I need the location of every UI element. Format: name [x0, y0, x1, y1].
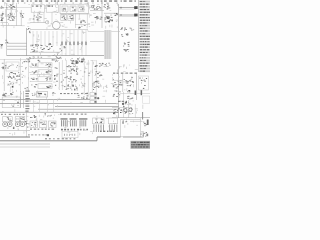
wire horiz y117 right — [112, 117, 150, 119]
wire vertical x28 mid — [28, 58, 30, 92]
junction dot left mid — [12, 86, 14, 88]
label right of J5 — [52, 92, 55, 95]
net labels left of contact stack — [78, 95, 89, 99]
border rule 3 — [0, 146, 50, 148]
wire horiz y84 right — [112, 83, 123, 85]
contact row 3 text — [46, 78, 52, 81]
transformer T1 winding marks — [4, 123, 10, 124]
wire stubs bus band — [2, 92, 119, 112]
relay K8 label — [7, 64, 18, 68]
wire stubs upper left — [2, 4, 58, 30]
wire horiz y80 right — [112, 79, 123, 81]
wire horiz y58 — [26, 57, 62, 59]
IC U5 cluster — [95, 16, 103, 20]
label left of J5 — [32, 93, 36, 96]
transformer T2 winding marks — [17, 123, 23, 124]
relay K3 box — [61, 15, 67, 21]
IC U6 dark cluster — [104, 15, 113, 23]
stack of contacts mid-right — [90, 93, 96, 104]
wire vert x23 bus — [23, 91, 25, 108]
net marks center strip — [22, 62, 29, 89]
capacitor bank C22 hatch — [79, 118, 87, 126]
wire step vertical — [96, 137, 98, 141]
IC U16 text — [95, 119, 103, 124]
switch S1 column — [54, 67, 58, 86]
capacitor bank C21 hatch — [70, 118, 77, 126]
crystal Y1 group — [62, 84, 78, 90]
IC U17 pin columns — [109, 125, 117, 133]
wire vert x26 bottom — [26, 113, 28, 137]
wire horiz y81 link — [30, 81, 38, 83]
wire horiz y29 under motor — [30, 29, 88, 31]
transistor Q2 group — [104, 4, 111, 10]
wire horiz y59 left — [0, 59, 30, 61]
relay K4 box — [68, 15, 74, 21]
relay K2 contact cluster — [33, 14, 42, 21]
relay K1b box — [12, 10, 17, 17]
connector J2 pins — [0, 13, 4, 21]
wire vert x87 — [86, 13, 88, 28]
wire horiz y130 left — [0, 130, 30, 132]
wire horiz y67 link — [30, 67, 38, 69]
wire vert x88 mid — [87, 60, 89, 95]
label net name A — [121, 33, 128, 37]
wire stubs center right — [62, 58, 109, 92]
resistor R21 group — [92, 80, 99, 84]
net labels row y73 — [113, 73, 137, 74]
IC U4 cell 2 text — [72, 7, 76, 11]
transformer T1 — [3, 117, 13, 127]
wire vertical x57 top — [57, 1, 59, 6]
fuse box F1 — [121, 120, 141, 137]
wire vertical x4 mid — [3, 59, 5, 91]
wire horiz y43 — [7, 42, 27, 44]
wire horiz y41 right — [90, 41, 104, 43]
IC U4 outline box — [60, 4, 89, 13]
wire horiz y22 mid — [30, 22, 46, 24]
wire to terminal list lower b — [119, 16, 136, 18]
connector terminal label column — [139, 1, 151, 73]
capacitor C2 cluster — [20, 13, 24, 17]
contact row box 4 — [38, 84, 52, 89]
title block text rows — [131, 142, 149, 148]
node junction dot upper wire — [120, 7, 122, 9]
op-amp U12 group — [95, 71, 102, 77]
wire vert x44 — [43, 12, 45, 22]
net marks top left extra — [6, 4, 13, 9]
IC U15 pins — [139, 78, 147, 89]
shield box ticks — [64, 134, 75, 136]
wire horiz y10 q1 — [90, 10, 104, 12]
wire vertical x59 mid — [58, 62, 60, 90]
wire vertical x6 left — [5, 3, 7, 56]
net labels y101 — [118, 101, 127, 102]
relay K5 box — [30, 121, 38, 127]
IC U15 pin stubs — [135, 90, 143, 95]
wire vert x62 mid — [61, 60, 63, 90]
diode D21 cluster — [120, 27, 134, 31]
label Tia right — [127, 96, 133, 100]
connector block J5 — [37, 92, 48, 98]
relay K7 text — [50, 122, 56, 127]
ribbon cable lines — [105, 30, 109, 59]
relay K6 box — [39, 121, 47, 127]
wire vertical trunk x102 — [101, 1, 103, 29]
label under knot — [29, 57, 42, 62]
IC U4 cell 2 — [70, 6, 76, 11]
connector J3 — [1, 63, 6, 69]
contact row 1 label — [32, 64, 37, 67]
ribbon cable bus band — [104, 30, 111, 59]
IC U2 label text — [32, 6, 42, 7]
terminal bar right edge — [147, 120, 149, 126]
terminal labels x26 — [25, 121, 30, 127]
wire vertical trunk left of terminal list — [137, 0, 139, 72]
net marks center strip b — [61, 70, 66, 83]
wire vert x136 mid — [135, 74, 137, 100]
IC U9 cluster — [69, 68, 79, 74]
wire vert x34 — [33, 12, 35, 22]
junction dot bottom left — [13, 127, 15, 129]
arrow mark — [47, 134, 49, 136]
connector block J5 pins — [38, 93, 47, 97]
wire main vertical trunk x118 — [118, 4, 120, 118]
contact row 2 label — [32, 70, 37, 73]
IC U4 cell 1 — [62, 6, 68, 11]
wire horiz y13 q2 — [104, 12, 119, 14]
inductor L1 cluster — [52, 53, 62, 62]
IC U13 cluster — [113, 79, 123, 88]
net label small — [10, 92, 13, 96]
contact row box 3 — [38, 77, 52, 82]
net label top right of J3 — [24, 59, 30, 62]
connector marks right of box — [140, 132, 147, 137]
node junction dot lower wire — [120, 14, 122, 16]
wire horiz y52 — [30, 51, 60, 53]
wire horiz y55 main — [7, 55, 104, 57]
transformer T1 labels — [7, 117, 12, 121]
shield box bottom mid — [62, 131, 78, 137]
wire vert x123 lower — [123, 92, 125, 118]
diode D8 marks — [59, 45, 65, 51]
wire vertical x21 — [20, 10, 22, 26]
bus net labels — [60, 93, 88, 94]
capacitor C1 group — [10, 5, 15, 9]
relay K5 text — [31, 122, 36, 127]
lamp symbol small — [46, 21, 49, 24]
wire vert x84 mid — [83, 60, 85, 95]
border rule 2 — [0, 143, 50, 145]
bus wire y103 — [0, 103, 119, 105]
relay K6 text — [40, 122, 46, 125]
contact row 4 text — [46, 86, 51, 89]
wire vert x20 bus — [20, 91, 22, 108]
ground symbol cluster left — [0, 44, 3, 48]
wire vert x123 — [122, 74, 124, 92]
relay K3 contacts — [62, 16, 67, 20]
bus wire y99 — [0, 99, 90, 101]
wire bus under U4 — [60, 13, 90, 15]
wire vertical x16 — [16, 3, 18, 26]
wire comb left group — [33, 31, 57, 46]
contact row 3 label — [31, 78, 38, 80]
top subtitle text row — [4, 2, 118, 5]
border rule step right — [97, 136, 121, 138]
junction dot x98 y98 — [97, 97, 99, 99]
relay K8 box — [6, 62, 19, 71]
transistor Q1 symbol — [91, 5, 94, 8]
op-amp U11 group — [95, 63, 104, 67]
wire to terminal list upper b — [119, 8, 136, 10]
wire vert x66 mid — [65, 60, 67, 90]
border rule left dark — [0, 136, 30, 138]
wire vert x135 lower — [134, 104, 136, 118]
net labels under bus right — [45, 113, 53, 116]
IC U8 dark cluster — [70, 58, 84, 65]
bus wire y106 — [55, 106, 119, 108]
wire vertical x20 mid — [20, 58, 22, 92]
diode D5 marks — [127, 90, 130, 92]
wire vert x75 — [74, 13, 76, 28]
junction knot wires — [30, 44, 45, 53]
IC U17 box bottom — [108, 118, 117, 124]
wire vert x128 right — [128, 100, 130, 118]
wire horiz y74 link — [30, 74, 38, 76]
wire to terminal list lower — [119, 14, 136, 16]
border rule main — [0, 140, 97, 142]
wire vert x92 — [91, 60, 93, 92]
bottom text left of rule — [28, 134, 47, 135]
contact row 1 text — [46, 64, 52, 67]
capacitor C7 group — [80, 20, 86, 24]
wire top-left horiz y25 — [1, 25, 23, 27]
wire horiz y107 right — [112, 107, 129, 109]
capacitor bank box — [143, 96, 150, 103]
IC U4 cell 3 — [78, 6, 84, 11]
IC U2 box — [31, 5, 44, 12]
IC U4 cell 3 text — [79, 7, 83, 11]
IC U4 cell 1 text — [63, 8, 67, 11]
IC U3 box — [46, 5, 58, 12]
wire stubs bottom row — [8, 114, 118, 135]
wire stubs right mid — [111, 64, 138, 97]
IC U8b cluster — [67, 66, 78, 68]
transistor Q1 group — [93, 5, 101, 10]
transistor Q6 Q7 pair — [113, 108, 122, 114]
ground net cluster left — [2, 93, 7, 97]
wire horiz y7 top-left — [0, 7, 31, 9]
wire label column mid-left — [25, 91, 29, 112]
net label right of column — [105, 63, 111, 67]
contact row box 2 — [38, 70, 52, 75]
wire vert x79 — [78, 13, 80, 19]
resistor network RN2 label — [123, 49, 129, 52]
fuse F2 marks — [1, 6, 4, 9]
wire horiz y31 right — [88, 31, 120, 33]
resistor bank R11-R17 — [61, 30, 86, 56]
IC U15 box right — [138, 76, 148, 90]
wire horiz y46 — [7, 45, 27, 47]
net marks center strip c — [81, 71, 91, 86]
IC U16 box bottom — [93, 118, 104, 124]
bottom text above rule — [45, 138, 75, 139]
bus taps — [34, 100, 54, 113]
diode D3 pair — [114, 13, 118, 16]
capacitor bank C20 hatch — [61, 118, 68, 126]
net labels under bus left — [30, 115, 36, 118]
IC U7 dark cluster — [8, 72, 21, 85]
diode D7 marks — [46, 43, 53, 50]
wire horiz y49 — [7, 48, 27, 50]
labels above transformers — [1, 114, 24, 115]
wire vert x96 — [95, 60, 97, 92]
wire vert x52 — [51, 12, 53, 22]
wire vertical x26 — [26, 28, 28, 56]
label under Q9 — [125, 101, 131, 104]
wire stubs mid left — [30, 31, 89, 58]
transistor Q8 — [124, 109, 127, 112]
motor M1 symbol — [52, 21, 60, 29]
resistor R101 — [134, 6, 137, 9]
bus wire y109 — [38, 108, 119, 110]
resistor row dots — [61, 129, 88, 131]
transistor Q5 group — [113, 90, 121, 97]
title block background — [131, 141, 151, 149]
bottom label pm row — [100, 131, 114, 132]
transformer T2 — [15, 117, 25, 127]
top title text row — [2, 0, 136, 1]
label under U4 right — [78, 25, 85, 28]
wire horiz y93 right — [120, 93, 150, 95]
transistor Q8 Q9 labels — [123, 106, 133, 114]
net name block x27 y28 — [27, 28, 31, 32]
wire stubs center — [2, 59, 59, 92]
labels above cap bank — [60, 114, 87, 115]
relay K1 box — [6, 10, 12, 17]
wire top-left horiz y22 — [1, 21, 9, 23]
wire horiz y24 right of U4 — [75, 24, 90, 26]
capacitor C12 — [5, 40, 8, 44]
transformer T2 labels — [17, 117, 24, 121]
terminal block pins — [3, 99, 19, 106]
tick at title block — [143, 133, 145, 137]
resistor R102 — [134, 14, 137, 17]
border rule right segment — [123, 136, 144, 138]
wire to terminal list upper — [119, 7, 136, 9]
contact row box 1 — [38, 63, 52, 68]
IC U10 cluster — [66, 76, 77, 82]
IC U16 pin columns — [93, 125, 104, 133]
wire stubs bottom right — [117, 101, 144, 128]
bus wire y112 — [0, 111, 119, 113]
op-amp U12b marks — [92, 86, 99, 91]
wire stubs upper middle — [60, 3, 118, 28]
relay K1 contacts — [8, 13, 15, 21]
transistor Q9 — [129, 108, 132, 111]
marks right of fuse box — [143, 122, 148, 127]
terminal block box — [2, 97, 20, 108]
junction dot right — [122, 103, 124, 105]
relay K7 box — [48, 121, 56, 127]
capacitor C31 with label — [123, 42, 130, 47]
fuse box F1 label — [122, 120, 127, 123]
IC U3 label text — [48, 6, 57, 7]
wire horiz y121 right — [130, 120, 143, 122]
bottom label text row1 — [30, 129, 54, 130]
title block revision mark — [146, 134, 148, 137]
relay K4 contacts — [70, 15, 74, 19]
IC U14 cluster — [124, 77, 134, 86]
contact row 2 text — [46, 70, 52, 73]
wire vert x142 dark — [142, 112, 144, 120]
contact row 4 label — [31, 84, 37, 87]
wire vert x38 — [37, 12, 39, 22]
